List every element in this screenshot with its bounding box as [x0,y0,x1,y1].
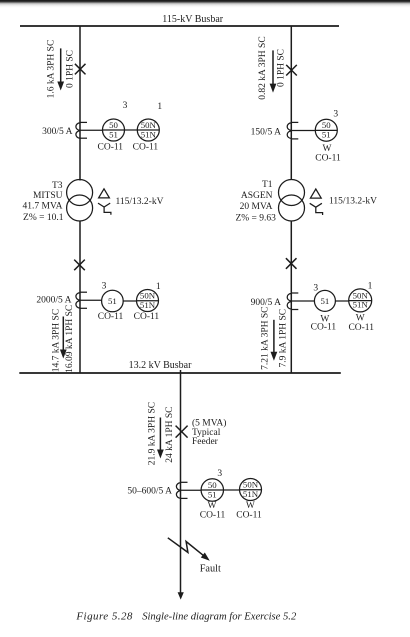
svg-text:0 1PH SC: 0 1PH SC [277,49,287,87]
svg-text:ASGEN: ASGEN [241,191,273,201]
T3 delta winding symbol [99,189,110,198]
svg-text:21.9 kA 3PH SC: 21.9 kA 3PH SC [147,402,157,465]
svg-text:7.9 kA 1PH SC: 7.9 kA 1PH SC [279,309,289,368]
svg-text:CO-11: CO-11 [98,143,124,153]
wire relay to relay [125,129,138,131]
svg-text:20 MVA: 20 MVA [240,202,273,212]
svg-text:50–600/5 A: 50–600/5 A [127,487,172,497]
relay 50/51 feeder [200,469,226,521]
svg-text:115-kV Busbar: 115-kV Busbar [162,14,224,25]
T3 grounded wye winding symbol [98,203,111,215]
wire relay to relay right [335,300,348,302]
relay 51 right lower [311,284,337,333]
svg-text:Z% = 9.63: Z% = 9.63 [235,214,276,224]
svg-text:MITSU: MITSU [33,191,63,201]
svg-text:51: 51 [321,296,330,306]
relay 50N/51N feeder [236,479,262,521]
svg-text:14.7 kA 3PH SC: 14.7 kA 3PH SC [51,309,61,372]
svg-text:51: 51 [208,489,217,499]
svg-text:3: 3 [102,281,107,291]
fault current arrow right upper [270,50,277,92]
svg-text:Single-line diagram for Exerci: Single-line diagram for Exercise 5.2 [142,612,297,623]
relay 50N/51N left upper [133,102,163,153]
CT 150/5 A [251,122,299,138]
svg-text:3: 3 [333,110,338,120]
wire CT to relay 50/51 [80,129,103,131]
CT 50-600/5 A [127,482,187,498]
fault current arrow right lower [271,320,278,361]
CT 900/5 A [251,293,299,310]
fault current arrow left upper [57,48,64,90]
svg-text:W: W [208,501,217,511]
svg-text:13.2 kV Busbar: 13.2 kV Busbar [129,360,193,371]
svg-text:3: 3 [217,469,222,479]
svg-text:T3: T3 [52,181,63,191]
svg-text:51: 51 [108,296,117,306]
relay 50N/51N right lower [348,281,374,333]
svg-text:1: 1 [156,282,161,292]
T1 grounded wye winding symbol [310,203,323,215]
busbar 13.2 kV [19,360,341,373]
svg-text:900/5 A: 900/5 A [251,298,281,308]
svg-text:115/13.2-kV: 115/13.2-kV [329,197,377,207]
wire CT to relay 51 [80,299,102,301]
svg-text:Fault: Fault [200,563,221,574]
svg-text:150/5 A: 150/5 A [251,127,281,137]
svg-text:51N: 51N [141,129,157,139]
svg-text:51N: 51N [140,300,156,310]
wire CT to relay 50/51 feeder [181,489,202,491]
fault current arrow feeder [157,418,164,459]
svg-text:Z% = 10.1: Z% = 10.1 [23,213,64,223]
T1 delta winding symbol [310,189,321,198]
svg-text:24 kA 1PH SC: 24 kA 1PH SC [165,406,175,462]
svg-text:3: 3 [123,101,128,111]
fault arrow (lightning bolt) [168,538,210,561]
svg-text:3: 3 [313,284,318,294]
relay 50N/51N left lower [134,282,161,322]
CT 2000/5 A [36,292,87,308]
svg-text:Figure 5.28: Figure 5.28 [75,611,133,623]
fault point X left lower [74,260,85,271]
relay 50/51 left upper [98,101,128,153]
svg-text:CO-11: CO-11 [134,312,160,322]
svg-text:CO-11: CO-11 [98,312,124,322]
transformer T3 [23,180,93,224]
wire left branch upper (busbar to T3) [79,26,81,181]
svg-text:7.21 kA 3PH SC: 7.21 kA 3PH SC [261,307,271,370]
fault point X feeder [176,426,188,438]
wire relay to relay [123,300,136,302]
feeder terminal arrow [178,592,184,599]
fault point X right upper [286,65,297,76]
svg-text:0 1PH SC: 0 1PH SC [66,50,76,88]
svg-text:CO-11: CO-11 [236,510,262,520]
svg-text:0.82 kA 3PH SC: 0.82 kA 3PH SC [258,36,268,99]
transformer T1 [235,180,304,224]
relay 51 left lower [98,281,124,322]
svg-text:T1: T1 [262,180,273,190]
busbar 115 kV [20,14,339,26]
svg-text:1: 1 [368,281,373,291]
svg-text:2000/5 A: 2000/5 A [36,295,71,305]
caption Figure 5.28 [75,611,297,623]
svg-text:41.7 MVA: 41.7 MVA [23,202,63,212]
svg-text:CO-11: CO-11 [200,510,226,520]
svg-text:1: 1 [157,102,162,112]
svg-text:51: 51 [322,130,331,140]
svg-text:Feeder: Feeder [192,437,219,447]
wire relay to relay feeder [224,489,240,491]
fault current arrow left lower [60,317,67,359]
svg-text:300/5 A: 300/5 A [42,127,72,137]
svg-text:16.09 kA 1PH SC: 16.09 kA 1PH SC [65,305,75,373]
svg-text:CO-11: CO-11 [348,323,374,333]
svg-text:CO-11: CO-11 [315,154,341,164]
fault point X right lower [286,258,297,269]
wire left branch lower (T3 to 13.2kV busbar) [79,221,81,374]
fault point X left upper [75,64,86,75]
wire right branch lower (T1 to 13.2kV busbar) [290,221,292,374]
svg-text:W: W [246,501,255,511]
relay 50/51 right upper [315,110,341,164]
svg-text:CO-11: CO-11 [133,143,159,153]
svg-text:1.6 kA 3PH SC: 1.6 kA 3PH SC [47,40,57,99]
svg-text:115/13.2-kV: 115/13.2-kV [116,197,164,207]
svg-text:51N: 51N [353,300,369,310]
CT 300/5 A [42,122,87,138]
wire CT to relay 51 right [291,300,314,302]
svg-text:W: W [356,313,365,323]
svg-text:51N: 51N [243,489,259,499]
wire CT to relay 50/51 right [291,130,315,132]
svg-text:CO-11: CO-11 [311,322,337,332]
wire right branch upper (busbar to T1) [290,26,292,180]
svg-text:51: 51 [109,129,118,139]
label (5 MVA) Typical Feeder [192,418,226,447]
wire feeder (13.2kV busbar down) [180,370,182,594]
